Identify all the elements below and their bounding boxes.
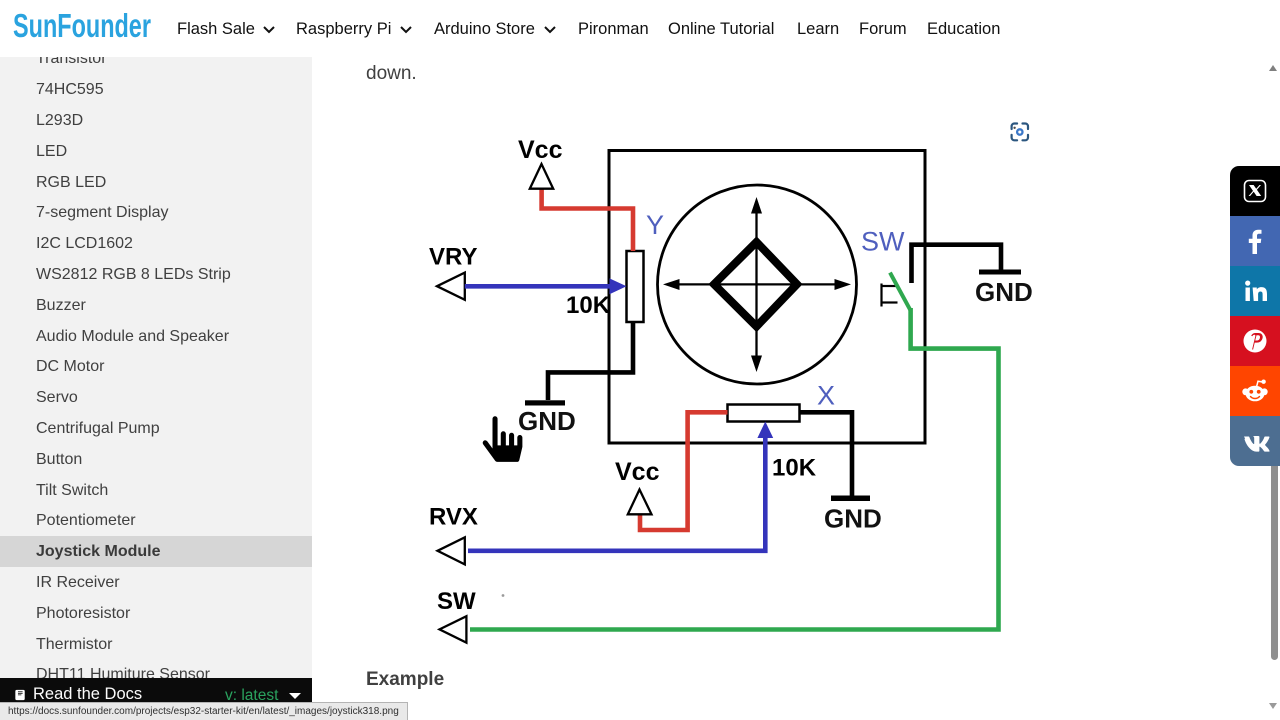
joystick stick diamond [714,242,797,327]
svg-text:GND: GND [975,277,1033,307]
joystick module outline box [609,151,925,444]
black wire R_X right to GND [800,412,853,495]
joystick direction arrows [663,197,851,372]
zoom focus icon [1012,124,1028,141]
Vcc power symbol (top) [530,164,553,189]
svg-text:10K: 10K [772,454,817,481]
ground bar (left) [525,400,565,405]
social share bar [1230,166,1280,466]
stray dot artifact [502,594,505,597]
VRY terminal arrow [437,273,465,300]
red wire Vcc to R_X left [640,412,728,530]
green wire SW to bottom terminal [470,308,999,630]
svg-text:GND: GND [518,406,576,436]
blue wiper arrowhead (Y pot) [610,278,627,294]
black wire switch to right GND [912,245,1002,283]
potentiometer R_Y body [627,251,644,322]
svg-text:VRY: VRY [429,244,477,271]
svg-text:RVX: RVX [429,503,478,530]
blue wire R_X wiper to RVX [468,431,765,551]
Vcc power symbol (bottom) [628,490,652,515]
top navigation [0,0,1280,57]
svg-text:X: X [817,381,835,411]
switch actuator lever (green) [890,273,911,311]
scrollbar [1271,440,1278,660]
blue wiper arrowhead (X pot) [757,422,773,439]
status bar [0,702,408,720]
svg-text:Vcc: Vcc [518,136,563,164]
svg-text:GND: GND [824,504,882,534]
ground bar (bottom) [831,496,870,502]
svg-text:Vcc: Vcc [615,458,660,486]
potentiometer R_X body [728,405,800,422]
sidebar [0,57,312,720]
svg-text:10K: 10K [566,292,611,319]
hand cursor [482,415,524,463]
SW terminal arrow (bottom) [440,616,467,642]
black wire R_Y bottom to GND [548,322,633,400]
svg-text:SW: SW [437,588,476,615]
switch SW fixed contacts [882,284,898,307]
red wire Vcc to R_Y top [542,189,633,252]
svg-text:SW: SW [861,227,905,257]
joystick knob circle [658,185,857,384]
ground bar (right) [979,270,1021,275]
RVX terminal arrow [438,537,465,564]
svg-text:Y: Y [646,210,664,240]
circuit schematic: joystick module [360,60,1060,660]
read the docs footer [0,678,312,702]
blue wire VRY to R_Y wiper [465,284,612,289]
